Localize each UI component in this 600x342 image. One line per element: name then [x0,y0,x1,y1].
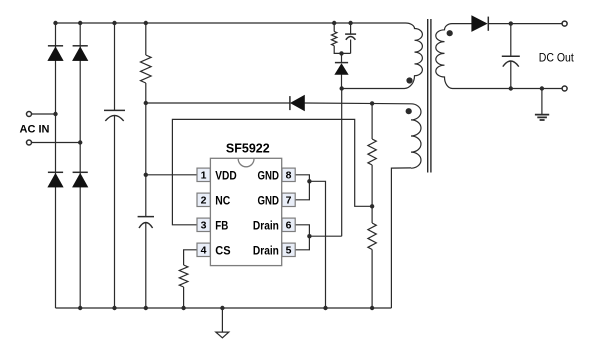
svg-text:3: 3 [201,220,207,232]
primary phase dot [406,77,412,83]
node earth ground tap [540,86,544,90]
resistor R3 (divider upper) [368,139,376,165]
wire primary bottom to drain node [342,88,405,90]
wire bulk cap column top [114,23,116,110]
svg-text:4: 4 [201,245,207,257]
earth ground symbol [535,115,549,120]
node GND pins branch [307,179,311,183]
node AC neutral junction [78,140,82,144]
diode D2 (bridge top-right) [73,45,88,47]
svg-text:AC IN: AC IN [20,124,50,136]
node AC live junction [53,112,57,116]
diode D1 (bridge top-left) [48,45,63,47]
wire aux winding to VDD diode [146,102,290,104]
terminal AC live [27,112,32,117]
svg-text:1: 1 [201,170,207,182]
pin 1 box [197,168,210,181]
svg-text:CS: CS [215,243,230,257]
svg-text:FB: FB [215,218,228,232]
pin 4 box [197,243,210,256]
svg-text:8: 8 [286,170,292,182]
op-amp U1 SF5922 body [210,158,281,265]
wire snubber resistor drop [333,23,335,32]
resistor R5 (current sense) [179,265,188,287]
svg-text:DC Out: DC Out [539,51,575,65]
svg-text:GND: GND [258,193,280,207]
node aux divider top [370,101,374,105]
svg-text:7: 7 [286,195,292,207]
svg-text:NC: NC [215,193,230,207]
node output cap top [509,21,513,25]
wire R1 column top [145,23,147,55]
wire secondary top to output diode [452,23,472,25]
pin 6 box [282,218,295,231]
wire FB pin 3 loop to divider [172,119,372,224]
node output cap bottom [509,86,513,90]
node VDD pin junction [144,173,148,177]
wire VDD diode anode to aux top [305,102,412,105]
wire AC live to bridge [32,113,56,115]
terminal DC+ [562,21,567,26]
transformer T1 aux winding [411,104,421,168]
pin 8 box [282,168,295,181]
transformer core lines [428,19,431,173]
wire bottom ground rail [56,307,392,309]
wire snubber cap to node [350,40,352,54]
wire top rail [56,22,406,24]
svg-text:Drain: Drain [253,218,279,232]
svg-text:5: 5 [286,245,292,257]
pin 7 box [282,193,295,206]
diode D3 (bridge bottom-left) [48,171,63,173]
wire VDD node to pin 1 [146,174,197,176]
wire secondary bottom rail [453,88,563,90]
wire output cap drop [510,24,512,57]
wire bridge column 2 [79,23,81,308]
IC notch [238,159,254,167]
wire drain vertical [341,89,343,237]
wire divider bottom to ground rail [371,250,373,309]
wire VDD cap bottom [145,222,147,308]
wire R1 to VDD node [145,83,147,217]
wire aux node down to divider [371,103,373,139]
terminal DC- [562,86,567,91]
capacitor C2 (VDD) [138,216,154,218]
junction dots top rail [53,21,57,25]
wire GND drop to ground rail [309,181,325,308]
svg-text:Drain: Drain [253,243,279,257]
wire snubber cap drop [350,23,352,34]
diode D4 (bridge bottom-right) [73,171,88,173]
wire CS pin to resistor [184,250,197,265]
svg-text:SF5922: SF5922 [226,141,270,155]
pin 5 box [282,243,295,256]
wire clamp diode to drain node [341,75,343,90]
wire snubber node to clamp diode [341,53,343,62]
diode D6 (clamp) [335,62,348,64]
diode D7 (output rectifier, points right) [472,16,487,32]
pin 3 box [197,218,210,231]
node VDD diode junction [144,101,148,105]
wire divider middle [371,165,373,223]
svg-text:VDD: VDD [215,168,237,182]
wire aux bottom to ground rail [391,168,411,308]
wire AC neutral to bridge [32,142,81,144]
resistor R2 (snubber) [332,32,337,46]
wire drain branch to pins 6/5 [309,235,341,237]
pin 2 box [197,193,210,206]
capacitor C1 (bulk) [104,109,125,111]
resistor R1 (startup) [141,55,152,83]
diode D5 (VDD rectifier, points left) [289,96,291,110]
wire CS resistor to ground rail [183,287,185,308]
wire earth ground stub [541,89,543,115]
wire output diode to terminal [488,23,562,25]
transformer T1 secondary winding [436,24,453,89]
wire bulk cap column bottom [114,116,116,308]
node snubber junction [339,51,343,55]
ground (signal ground triangle) [216,332,229,338]
svg-text:2: 2 [201,195,207,207]
wire bridge column 1 [55,23,57,308]
node drain pins branch [307,234,311,238]
junction dots bottom rail [78,306,82,310]
transformer T1 primary winding [405,23,423,89]
wire pin8-pin7 link [295,175,310,200]
secondary phase dot [447,30,453,36]
node drain junction [340,86,344,90]
capacitor C3 (snubber) [345,33,356,35]
aux phase dot [406,108,412,114]
wire ground stub [221,308,223,332]
node FB tap [370,204,374,208]
terminal AC neutral [27,140,32,145]
resistor R4 (divider lower) [368,223,376,250]
wire output cap bottom [510,61,512,89]
capacitor C4 (output) [502,55,520,57]
wire pin6-pin5 link [295,225,310,250]
wire snubber bottom link [334,46,350,54]
svg-text:6: 6 [286,220,292,232]
svg-text:GND: GND [258,168,280,182]
